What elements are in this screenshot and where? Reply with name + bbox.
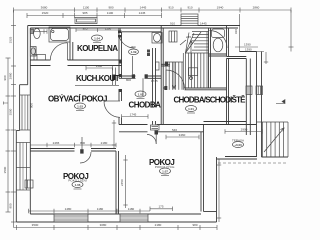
- svg-text:900: 900: [9, 203, 13, 208]
- threshold at stair door: [161, 64, 170, 66]
- door posts chodba west: [119, 74, 123, 77]
- svg-text:+0,00: +0,00: [234, 143, 242, 147]
- kitchen interior dim: [76, 28, 121, 32]
- dim vertical at x=114: [112, 120, 116, 149]
- svg-text:985: 985: [82, 11, 87, 15]
- stairwell west wall: [161, 26, 163, 125]
- svg-text:2180: 2180: [155, 223, 162, 227]
- svg-text:KUCH.KOUT: KUCH.KOUT: [76, 74, 120, 83]
- dimension line left outer: [6, 58, 11, 212]
- svg-text:1390: 1390: [245, 47, 252, 51]
- svg-text:985: 985: [82, 26, 87, 30]
- shaft box in stairwell: [169, 31, 177, 42]
- svg-text:3500: 3500: [32, 223, 39, 227]
- svg-text:1390: 1390: [244, 43, 251, 47]
- stairs left flight treads: [166, 62, 183, 90]
- window bottom wall 1: [54, 214, 88, 222]
- interior dim chodba bottom: [122, 114, 149, 118]
- stamp koupelna: [92, 35, 103, 43]
- svg-text:1445: 1445: [140, 6, 147, 10]
- chimney: [181, 14, 198, 26]
- bay window top-left: [75, 18, 97, 24]
- cupboard edge line: [142, 78, 144, 96]
- svg-text:WC: WC: [131, 45, 137, 49]
- jog at y=84.7: [20, 84, 28, 86]
- window left wall 1: [20, 95, 31, 130]
- svg-text:1480: 1480: [65, 207, 72, 211]
- svg-text:910: 910: [187, 6, 192, 10]
- svg-text:1445: 1445: [200, 22, 207, 26]
- roof overhang dashed: [218, 162, 288, 164]
- radiator left wall: [25, 180, 33, 188]
- svg-text:1100: 1100: [107, 11, 114, 15]
- window marks east wing: [246, 86, 263, 95]
- svg-text:1.07: 1.07: [162, 169, 168, 173]
- svg-text:3500: 3500: [9, 108, 13, 115]
- svg-text:900: 900: [30, 103, 34, 108]
- interior dim pokoj right top: [166, 135, 199, 139]
- zadveri basin: [152, 33, 162, 44]
- svg-text:2900: 2900: [241, 127, 248, 131]
- east wall of schodiste room: [226, 59, 228, 125]
- bathroom small dim: [31, 29, 47, 33]
- door posts in y77 wall: [132, 74, 135, 78]
- stairs arrow down left flight: [173, 62, 176, 89]
- svg-text:OBÝVACÍ POKOJ: OBÝVACÍ POKOJ: [48, 95, 107, 104]
- bath/kitchen divider wall: [70, 28, 73, 60]
- washer bottom: [34, 55, 46, 60]
- bathtub: [49, 27, 70, 42]
- stairs mid platform box: [189, 68, 198, 76]
- svg-text:CHODBA/SCHODIŠTĚ: CHODBA/SCHODIŠTĚ: [174, 96, 247, 105]
- window bottom wall 2: [120, 214, 148, 222]
- dim line above pokoj-left wall: [30, 143, 116, 147]
- stairs right flight treads: [188, 32, 207, 89]
- stamp obyvaci: [75, 103, 86, 111]
- svg-text:3460: 3460: [179, 133, 186, 137]
- stamp zadveri2: [129, 45, 139, 54]
- outer wall right of pokoj: [201, 125, 204, 212]
- WC toilet: [212, 29, 225, 52]
- stairs upper winder treads: [185, 32, 208, 54]
- stairs winder diagonals: [185, 32, 201, 53]
- svg-text:800: 800: [126, 78, 131, 82]
- svg-text:910: 910: [168, 6, 173, 10]
- svg-text:2180: 2180: [101, 141, 108, 145]
- svg-text:1525: 1525: [9, 36, 13, 43]
- svg-text:980: 980: [192, 223, 197, 227]
- svg-text:1100: 1100: [105, 26, 112, 30]
- stairs direction arrow up: [190, 40, 193, 80]
- WC partition by stairs: [209, 28, 227, 88]
- stamp terasa: [232, 139, 244, 148]
- east wing walls: [204, 26, 262, 160]
- terasa bottom wall: [225, 156, 257, 158]
- svg-text:1745: 1745: [130, 112, 137, 116]
- wall living/pokoj-left y=150: [30, 149, 116, 152]
- dimension line left second: [11, 10, 16, 228]
- small fixture at chodba east wall: [156, 62, 160, 70]
- svg-text:800: 800: [80, 141, 85, 145]
- dimension labels top outer: [41, 6, 260, 10]
- outer wall top: [28, 26, 240, 32]
- WC door arc: [210, 31, 228, 49]
- kitchen interior dim 2: [86, 66, 112, 70]
- svg-text:1180: 1180: [96, 64, 103, 68]
- dimension line top second: [27, 13, 162, 18]
- svg-text:1.03: 1.03: [77, 104, 83, 108]
- dimension lines right top: [235, 10, 294, 64]
- zadveri door arc at top: [119, 32, 135, 48]
- window left wall 2: [16, 143, 30, 191]
- stairs bottom door: [166, 70, 185, 89]
- kitchen/living boundary line: [75, 84, 119, 86]
- stamp pokoj right: [155, 165, 175, 176]
- wall kitchen/chodba x=120: [119, 28, 122, 125]
- svg-text:1.06: 1.06: [75, 183, 81, 187]
- bathroom bottom wall y=60: [30, 60, 122, 66]
- svg-text:900: 900: [3, 75, 7, 80]
- svg-text:1520: 1520: [42, 11, 49, 15]
- svg-text:546: 546: [172, 128, 177, 132]
- wall below zadveri y=77: [119, 76, 161, 78]
- svg-text:2450: 2450: [120, 179, 124, 186]
- svg-text:1445: 1445: [139, 11, 146, 15]
- svg-text:CHODBA: CHODBA: [129, 101, 162, 110]
- svg-text:1180: 1180: [128, 207, 135, 211]
- dimension labels left rotated: [3, 36, 13, 208]
- stamp chodba: [135, 91, 146, 99]
- bathroom door arc: [50, 43, 67, 60]
- svg-text:2465: 2465: [53, 141, 60, 145]
- svg-text:1.09: 1.09: [131, 50, 137, 54]
- living room door arc: [104, 101, 120, 117]
- kitchen counter edge: [113, 68, 116, 86]
- dimension labels top second: [42, 11, 146, 15]
- svg-text:1180: 1180: [97, 207, 104, 211]
- outer wall left upper: [16, 26, 30, 223]
- divider wall pokoj x=117: [116, 151, 119, 214]
- stamp pokoj left: [68, 178, 86, 190]
- svg-text:175: 175: [158, 204, 163, 208]
- svg-text:1.01: 1.01: [188, 107, 194, 111]
- dim vertical pokoj right: [123, 155, 127, 208]
- outer wall bottom: [16, 157, 216, 222]
- svg-text:2860: 2860: [253, 6, 260, 10]
- dimension line top outer: [14, 8, 292, 13]
- stairs center stringer: [183, 53, 185, 90]
- dimension line bottom inner chain: [29, 207, 173, 214]
- chodba east wall x=153: [153, 48, 156, 125]
- dimension labels bottom: [32, 223, 198, 227]
- left small arrow mark: [4, 102, 9, 105]
- svg-text:1940: 1940: [217, 6, 224, 10]
- pokoj left door: [80, 137, 91, 163]
- exterior stair bottom line: [262, 156, 289, 158]
- svg-text:3080: 3080: [100, 223, 107, 227]
- dimension line bottom outer: [14, 225, 218, 230]
- benchmark flag right: [276, 100, 285, 104]
- svg-text:980: 980: [108, 6, 113, 10]
- svg-text:3680: 3680: [41, 6, 48, 10]
- closet partition line: [132, 56, 134, 74]
- exterior stairs east: [257, 122, 289, 157]
- stamp box on wall: [151, 125, 160, 130]
- toilet bathroom: [30, 28, 40, 38]
- stamp schodiste: [186, 106, 197, 114]
- wall under stairs y=88: [163, 88, 226, 90]
- svg-text:3500: 3500: [3, 166, 7, 173]
- washbasin: [30, 47, 36, 57]
- svg-text:1100: 1100: [83, 6, 90, 10]
- wall below stairs room y=124.5 (pokoj right top): [119, 125, 204, 132]
- svg-text:910: 910: [170, 22, 175, 26]
- svg-text:1.02: 1.02: [138, 92, 144, 96]
- pokoj right door: [147, 135, 156, 145]
- wall from pokoj corner to east wing: [204, 121, 247, 123]
- kitchen door posts: [118, 31, 122, 34]
- svg-text:1.04: 1.04: [94, 36, 100, 40]
- svg-text:2980: 2980: [9, 72, 13, 79]
- svg-text:KOUPELNA: KOUPELNA: [77, 44, 118, 53]
- svg-text:245: 245: [186, 35, 191, 39]
- dim vertical SE: [217, 159, 221, 222]
- svg-text:910: 910: [234, 29, 238, 34]
- dim line at terasa: [225, 129, 262, 134]
